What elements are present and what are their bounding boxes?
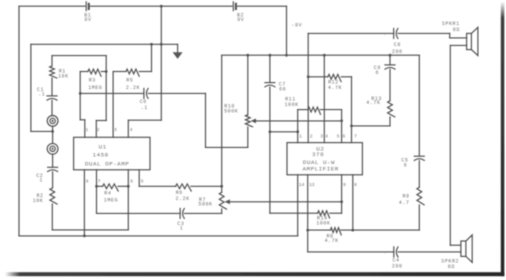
wire ground to jack bbox=[30, 44, 32, 131]
wire bottom bus bbox=[19, 235, 298, 237]
svg-text:1: 1 bbox=[86, 127, 89, 133]
svg-text:1458: 1458 bbox=[93, 151, 109, 158]
svg-text:9: 9 bbox=[343, 182, 346, 188]
node R4 left bbox=[95, 185, 98, 188]
svg-text:5: 5 bbox=[141, 179, 144, 185]
resistor R8 bbox=[308, 229, 331, 231]
capacitor C2 bbox=[48, 166, 58, 168]
potentiometer R10 bbox=[245, 115, 252, 127]
svg-text:9V: 9V bbox=[84, 17, 91, 23]
wire U2 pin13 column bbox=[307, 175, 309, 252]
svg-text:4.7K: 4.7K bbox=[328, 85, 342, 91]
wire rail to R7 bbox=[221, 55, 223, 192]
svg-text:DUAL OP-AMP: DUAL OP-AMP bbox=[85, 160, 129, 167]
resistor R12 bbox=[308, 76, 328, 78]
node R3 right junction bbox=[105, 70, 108, 73]
wire pin13 to C4 bbox=[308, 251, 394, 253]
wire rail to C7 bbox=[269, 55, 271, 82]
svg-text:100K: 100K bbox=[285, 102, 299, 108]
node rail supply bbox=[285, 54, 288, 57]
node C7 branch bbox=[269, 130, 272, 133]
node pin1 input bbox=[296, 130, 299, 133]
wire R5 to ground line bbox=[151, 44, 153, 71]
ground bbox=[177, 44, 179, 52]
wire C7 to U2 pin1 bbox=[269, 87, 271, 132]
wire U1 pin1 column bbox=[79, 72, 81, 120]
wire rail to R10 bbox=[247, 55, 249, 115]
svg-text:+: + bbox=[384, 251, 387, 256]
capacitor C3 bbox=[179, 208, 181, 218]
node R4 right bbox=[127, 185, 130, 188]
wire U1 pin7 column bbox=[96, 170, 98, 214]
node R6 R7 junction bbox=[220, 185, 223, 188]
svg-text:200: 200 bbox=[392, 264, 403, 270]
svg-text:10K: 10K bbox=[58, 74, 69, 80]
svg-text:500K: 500K bbox=[198, 202, 212, 208]
svg-text:7: 7 bbox=[98, 179, 101, 185]
svg-text:4.7K: 4.7K bbox=[325, 238, 339, 244]
node rail R10 bbox=[246, 54, 249, 57]
svg-text:1MEG: 1MEG bbox=[104, 198, 118, 204]
svg-text:R9: R9 bbox=[403, 194, 410, 200]
wire rail to C9 bbox=[389, 55, 391, 64]
wire C3 to R7 bottom bbox=[185, 212, 222, 214]
wire U1 pin3 column bbox=[112, 72, 114, 138]
svg-text:378: 378 bbox=[312, 151, 324, 158]
svg-text:1: 1 bbox=[299, 133, 302, 139]
wire U2 pin2 output bbox=[307, 33, 309, 142]
svg-text:3: 3 bbox=[114, 127, 117, 133]
svg-text:6: 6 bbox=[404, 162, 408, 168]
svg-text:.1: .1 bbox=[38, 92, 45, 98]
wire U2 pin8 column bbox=[352, 175, 354, 230]
svg-text:1MEG: 1MEG bbox=[88, 85, 102, 91]
node wiper pin9 junction bbox=[340, 200, 343, 203]
svg-text:.1: .1 bbox=[141, 105, 148, 111]
svg-text:6: 6 bbox=[376, 70, 380, 76]
node supply mid junction bbox=[160, 43, 163, 46]
battery B2 bbox=[232, 2, 234, 11]
svg-text:4.7K: 4.7K bbox=[366, 100, 380, 106]
svg-text:8: 8 bbox=[354, 182, 357, 188]
wire -9V drop bbox=[286, 6, 288, 55]
capacitor C8 bbox=[393, 28, 395, 38]
node C6 tap on pin1 bbox=[79, 92, 82, 95]
svg-text:7: 7 bbox=[354, 133, 357, 139]
wire C6 to R10 bottom bbox=[148, 92, 205, 94]
wire C2 to R2 bbox=[52, 172, 54, 188]
resistor R11 bbox=[298, 109, 308, 111]
wire R1 to C1 bbox=[51, 78, 53, 96]
wire U2 pin14 to bus bbox=[297, 175, 299, 236]
node rail C7 bbox=[269, 54, 272, 57]
wire R3 node to U1 pin2 bbox=[105, 72, 107, 121]
resistor R4 bbox=[97, 185, 103, 187]
svg-text:2: 2 bbox=[310, 133, 313, 139]
svg-text:4: 4 bbox=[325, 133, 328, 139]
svg-text:10K: 10K bbox=[33, 198, 44, 204]
wire R13 to pin7 bbox=[389, 117, 391, 126]
shadow right bbox=[501, 2, 505, 277]
svg-text:1: 1 bbox=[39, 178, 43, 184]
wire pin1 to C6 bbox=[80, 92, 144, 94]
svg-text:8: 8 bbox=[86, 179, 89, 185]
svg-text:1: 1 bbox=[180, 226, 184, 232]
wire rail to U2 pin4 bbox=[323, 55, 325, 142]
resistor R14 bbox=[270, 212, 318, 214]
svg-text:R6: R6 bbox=[176, 190, 183, 196]
svg-text:200: 200 bbox=[392, 49, 403, 55]
wire C5 to R9 bbox=[418, 161, 420, 188]
svg-text:C8: C8 bbox=[394, 42, 401, 48]
capacitor C1 bbox=[47, 95, 57, 97]
svg-text:2: 2 bbox=[97, 127, 100, 133]
wire rail corner to C5 bbox=[418, 55, 420, 156]
node R8 left bbox=[306, 229, 309, 232]
wire J2 to C2 bbox=[52, 154, 54, 167]
resistor R5 bbox=[113, 71, 126, 73]
wire left frame bbox=[18, 6, 20, 236]
wire -9V rail y55 bbox=[222, 54, 420, 56]
svg-text:R4: R4 bbox=[104, 191, 111, 197]
resistor R1 bbox=[50, 66, 57, 78]
wire U1 pin8 to bus bbox=[83, 170, 85, 236]
svg-text:U1: U1 bbox=[99, 143, 107, 150]
wire J1 to J2 bbox=[52, 126, 54, 143]
svg-text:8Ω: 8Ω bbox=[453, 27, 460, 33]
op-amp U2 bbox=[287, 143, 362, 175]
capacitor C7 bbox=[265, 82, 275, 84]
wire C8 to SPKR1 bbox=[398, 32, 450, 34]
resistor R2 bbox=[50, 188, 57, 204]
jack J1 bbox=[47, 116, 58, 127]
node wiper R11 junction bbox=[340, 119, 343, 122]
capacitor C6 bbox=[143, 88, 145, 98]
wire C4 to SPKR2 bbox=[398, 251, 461, 253]
speaker SPKR1 bbox=[467, 33, 472, 49]
wire ground line y44 bbox=[31, 43, 178, 45]
wire R10 wiper bbox=[251, 119, 256, 124]
capacitor C5 bbox=[414, 155, 424, 157]
node R5 riser junction bbox=[150, 43, 153, 46]
svg-text:6: 6 bbox=[130, 179, 133, 185]
resistor R6 bbox=[176, 184, 192, 191]
node jack ground junction bbox=[51, 130, 54, 133]
svg-text:R3: R3 bbox=[89, 77, 96, 83]
wire R9 to R8 line bbox=[418, 205, 420, 230]
svg-text:+: + bbox=[383, 33, 386, 38]
svg-text:4: 4 bbox=[130, 127, 133, 133]
svg-text:2.2K: 2.2K bbox=[126, 85, 140, 91]
wire R2 to U1 pin6 bbox=[51, 204, 53, 230]
shadow bottom bbox=[5, 272, 504, 276]
svg-text:13: 13 bbox=[309, 182, 315, 188]
wire U2 pin9 column bbox=[341, 175, 343, 213]
svg-text:R5: R5 bbox=[126, 77, 133, 83]
node rail U2 pin4 bbox=[323, 54, 326, 57]
svg-text:500K: 500K bbox=[224, 109, 238, 115]
wire U1 pin6 column bbox=[127, 170, 129, 230]
resistor R3 bbox=[80, 71, 88, 73]
wire pin2 to C8 bbox=[308, 32, 394, 34]
battery B1 bbox=[85, 2, 87, 11]
capacitor C9 bbox=[385, 64, 395, 66]
wire C9 to R13 bbox=[389, 69, 391, 100]
svg-text:2.2K: 2.2K bbox=[176, 196, 190, 202]
node battery junction bbox=[160, 5, 163, 8]
speaker SPKR2 bbox=[461, 241, 466, 256]
wire U1 pin5 to R6 bbox=[138, 170, 140, 187]
jack J2 bbox=[47, 143, 58, 154]
potentiometer R7 bbox=[219, 192, 226, 209]
svg-text:3: 3 bbox=[320, 133, 323, 139]
svg-text:14: 14 bbox=[299, 182, 305, 188]
wire R11 left to U2 pin1 bbox=[297, 110, 299, 143]
svg-text:9V: 9V bbox=[237, 17, 244, 23]
wire R1 top node bbox=[51, 56, 53, 66]
node bus / U1 pin8 bbox=[83, 235, 86, 238]
wire R12 to U2 pin7 bbox=[351, 77, 353, 143]
capacitor C4 bbox=[393, 247, 395, 257]
wire R11 right to U2 pin6 bbox=[341, 110, 343, 143]
svg-text:AMPLIFIER: AMPLIFIER bbox=[303, 166, 339, 173]
node R8 right bbox=[351, 229, 354, 232]
wire SPKR1 return bbox=[450, 44, 466, 46]
op-amp U1 bbox=[74, 137, 150, 170]
wire C7 node down to R14 bbox=[269, 132, 271, 213]
node R13 pin7 junction bbox=[350, 125, 353, 128]
svg-text:6: 6 bbox=[343, 133, 346, 139]
wire top supply rail y6 bbox=[19, 5, 85, 7]
svg-text:60: 60 bbox=[279, 86, 286, 92]
svg-text:5: 5 bbox=[337, 133, 340, 139]
svg-text:-9V: -9V bbox=[292, 23, 303, 29]
resistor R13 bbox=[388, 101, 395, 117]
resistor R9 bbox=[417, 187, 424, 204]
node rail C9 bbox=[389, 54, 392, 57]
wire battery mid to U1 pin4 bbox=[160, 6, 162, 120]
wire R7 wiper bbox=[225, 199, 230, 204]
wire C1 to jack J1 bbox=[51, 100, 53, 115]
svg-text:8Ω: 8Ω bbox=[448, 264, 455, 270]
node R12 tap bbox=[307, 75, 310, 78]
wire pin7 to C3 bbox=[97, 212, 181, 214]
svg-text:100K: 100K bbox=[316, 221, 330, 227]
svg-text:4.7: 4.7 bbox=[399, 200, 410, 206]
